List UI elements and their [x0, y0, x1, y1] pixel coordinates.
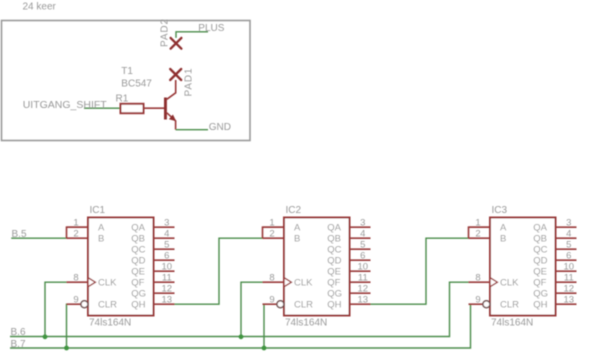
svg-text:11: 11	[162, 273, 172, 284]
wire B.6 tap to IC2 CLK	[241, 282, 263, 336]
IC1 pin 11 QF	[131, 273, 174, 289]
shift register IC2 74ls164N	[263, 205, 371, 329]
IC3 pin 10 QE	[533, 262, 576, 278]
IC3 body	[490, 218, 556, 316]
IC2 pin 8 CLK	[263, 273, 314, 289]
svg-text:13: 13	[162, 295, 173, 306]
svg-text:10: 10	[358, 262, 369, 273]
IC2 body	[284, 218, 350, 316]
svg-text:IC3: IC3	[492, 205, 508, 216]
svg-text:T1: T1	[121, 66, 133, 77]
IC1 pin 9 CLR	[67, 295, 118, 311]
junction on B.6 at IC2 tap	[239, 334, 244, 339]
wire net B.5 to IC1 input	[11, 237, 66, 239]
IC3 pin 4 QB	[533, 229, 576, 245]
junction on B.7 at IC1 tap	[64, 346, 69, 351]
pad P2 X symbol	[171, 38, 182, 49]
IC1 pin 2 B	[67, 229, 105, 245]
svg-text:1: 1	[269, 218, 274, 229]
svg-text:12: 12	[564, 284, 575, 295]
svg-text:B: B	[98, 234, 104, 245]
wire IC2 QH to IC3 inputs	[371, 238, 469, 304]
svg-text:UITGANG_SHIFT: UITGANG_SHIFT	[23, 99, 108, 111]
wire PAD2 to PLUS	[176, 32, 208, 38]
svg-text:QC: QC	[131, 245, 145, 256]
svg-text:2: 2	[475, 229, 480, 240]
svg-text:13: 13	[564, 295, 575, 306]
svg-text:PAD2: PAD2	[159, 18, 170, 47]
svg-text:3: 3	[566, 218, 571, 229]
IC1 pin 5 QC	[131, 240, 174, 256]
IC2 pin 5 QC	[327, 240, 370, 256]
svg-text:QF: QF	[131, 278, 144, 289]
IC2 pins 1-2 input tie bracket	[263, 227, 285, 238]
svg-text:CLK: CLK	[98, 278, 117, 289]
svg-text:6: 6	[164, 251, 169, 262]
svg-text:A: A	[98, 223, 105, 234]
svg-text:QG: QG	[533, 289, 548, 300]
svg-text:QF: QF	[327, 278, 340, 289]
svg-text:GND: GND	[209, 122, 231, 133]
IC1 pin 4 QB	[131, 229, 174, 245]
svg-text:2: 2	[269, 229, 274, 240]
IC3 pin 1 A	[469, 218, 508, 234]
svg-text:13: 13	[358, 295, 369, 306]
svg-text:5: 5	[566, 240, 571, 251]
svg-text:74ls164N: 74ls164N	[491, 318, 533, 329]
svg-text:4: 4	[360, 229, 365, 240]
IC2 pin 10 QE	[327, 262, 370, 278]
svg-text:3: 3	[360, 218, 365, 229]
IC2 pin 9 CLR	[263, 295, 314, 311]
IC1 pin 1 A	[67, 218, 106, 234]
svg-text:2: 2	[73, 229, 78, 240]
svg-text:QE: QE	[533, 267, 547, 278]
IC3 pin 11 QF	[533, 273, 576, 289]
svg-text:QE: QE	[131, 267, 145, 278]
IC2 pin 11 QF	[327, 273, 370, 289]
svg-text:QC: QC	[533, 245, 547, 256]
wire resistor to transistor base	[144, 107, 165, 109]
svg-text:QG: QG	[131, 289, 146, 300]
svg-text:QD: QD	[327, 256, 341, 267]
svg-text:74ls164N: 74ls164N	[89, 318, 131, 329]
svg-text:QD: QD	[131, 256, 145, 267]
transistor T1 base bar	[164, 98, 167, 120]
svg-text:QA: QA	[131, 223, 145, 234]
IC1 pin 6 QD	[131, 251, 174, 267]
svg-text:9: 9	[73, 295, 78, 306]
svg-text:IC1: IC1	[90, 205, 106, 216]
IC2 pin 12 QG	[327, 284, 370, 300]
svg-text:10: 10	[162, 262, 173, 273]
IC1 pin 13 QH	[131, 295, 174, 311]
junction on B.7 at IC2 tap	[262, 346, 267, 351]
wire B.7 tap to IC2 CLR	[264, 304, 277, 348]
wire emitter to GND	[176, 129, 208, 131]
svg-text:QG: QG	[327, 289, 342, 300]
svg-text:CLK: CLK	[500, 278, 519, 289]
svg-text:QF: QF	[533, 278, 546, 289]
svg-text:5: 5	[360, 240, 365, 251]
IC2 pin 2 B	[263, 229, 301, 245]
svg-text:PLUS: PLUS	[198, 23, 224, 34]
svg-text:12: 12	[358, 284, 369, 295]
svg-text:9: 9	[269, 295, 274, 306]
svg-text:A: A	[294, 223, 301, 234]
IC2 pin 4 QB	[327, 229, 370, 245]
IC3 pin 8 CLK	[469, 273, 520, 289]
IC1 pin 3 QA	[131, 218, 174, 234]
transistor T1 collector to PAD1	[167, 80, 176, 99]
wire net UITGANG_SHIFT into resistor	[84, 107, 121, 109]
svg-text:A: A	[500, 223, 507, 234]
svg-text:QA: QA	[533, 223, 547, 234]
IC1 pin 10 QE	[131, 262, 174, 278]
svg-text:1: 1	[73, 218, 78, 229]
svg-text:BC547: BC547	[121, 78, 152, 89]
IC1 body	[88, 218, 154, 316]
svg-text:11: 11	[564, 273, 574, 284]
IC3 pin 6 QD	[533, 251, 576, 267]
svg-text:5: 5	[164, 240, 169, 251]
svg-text:3: 3	[164, 218, 169, 229]
svg-text:QH: QH	[327, 300, 341, 311]
IC2 pin 1 A	[263, 218, 302, 234]
wire net B.7 bus line to IC3 CLR	[10, 304, 483, 348]
IC3 pin 3 QA	[533, 218, 576, 234]
IC3 pins 1-2 input tie bracket	[469, 227, 491, 238]
svg-text:1: 1	[475, 218, 480, 229]
svg-text:10: 10	[564, 262, 575, 273]
svg-text:6: 6	[360, 251, 365, 262]
svg-text:4: 4	[164, 229, 169, 240]
svg-text:B: B	[500, 234, 506, 245]
svg-text:QB: QB	[131, 234, 145, 245]
svg-text:QA: QA	[327, 223, 341, 234]
svg-text:24 keer: 24 keer	[23, 2, 57, 13]
IC1 pin 12 QG	[131, 284, 174, 300]
IC1 pin 8 CLK	[67, 273, 118, 289]
shift register IC3 74ls164N	[469, 205, 577, 329]
shift register IC1 74ls164N	[67, 205, 175, 329]
svg-text:QH: QH	[131, 300, 145, 311]
pad P1 X symbol	[170, 69, 181, 80]
IC2 pin 6 QD	[327, 251, 370, 267]
svg-text:QC: QC	[327, 245, 341, 256]
svg-text:12: 12	[162, 284, 173, 295]
IC2 pin 13 QH	[327, 295, 370, 311]
svg-text:9: 9	[475, 295, 480, 306]
frame of transistor subcircuit box	[2, 21, 251, 141]
svg-text:R1: R1	[116, 93, 129, 104]
IC3 pin 12 QG	[533, 284, 576, 300]
transistor T1 emitter arrow	[169, 115, 176, 122]
svg-text:CLR: CLR	[500, 300, 519, 311]
svg-text:8: 8	[269, 273, 274, 284]
IC3 pin 13 QH	[533, 295, 576, 311]
wire net B.6 bus line to IC3 CLK	[10, 282, 469, 336]
svg-text:8: 8	[73, 273, 78, 284]
svg-text:PAD1: PAD1	[183, 68, 194, 97]
junction on B.6 at IC1 tap	[43, 334, 48, 339]
svg-text:8: 8	[475, 273, 480, 284]
svg-text:CLR: CLR	[294, 300, 313, 311]
svg-text:QB: QB	[327, 234, 341, 245]
svg-text:QB: QB	[533, 234, 547, 245]
IC2 pin 3 QA	[327, 218, 370, 234]
IC3 pin 9 CLR	[469, 295, 520, 311]
wire IC1 QH to IC2 inputs	[174, 238, 263, 304]
resistor R1 body	[121, 104, 144, 113]
wire B.7 tap to IC1 CLR	[67, 304, 81, 348]
svg-text:IC2: IC2	[286, 205, 302, 216]
svg-text:74ls164N: 74ls164N	[285, 318, 327, 329]
svg-text:B: B	[294, 234, 300, 245]
IC3 pin 5 QC	[533, 240, 576, 256]
svg-text:CLK: CLK	[294, 278, 313, 289]
IC1 pins 1-2 input tie bracket	[67, 227, 89, 238]
svg-text:QH: QH	[533, 300, 547, 311]
transistor T1 emitter	[167, 113, 176, 130]
svg-text:6: 6	[566, 251, 571, 262]
svg-text:QD: QD	[533, 256, 547, 267]
svg-text:CLR: CLR	[98, 300, 117, 311]
IC3 pin 2 B	[469, 229, 507, 245]
svg-text:4: 4	[566, 229, 571, 240]
wire B.6 tap to IC1 CLK	[45, 282, 67, 336]
svg-text:11: 11	[358, 273, 368, 284]
svg-text:QE: QE	[327, 267, 341, 278]
